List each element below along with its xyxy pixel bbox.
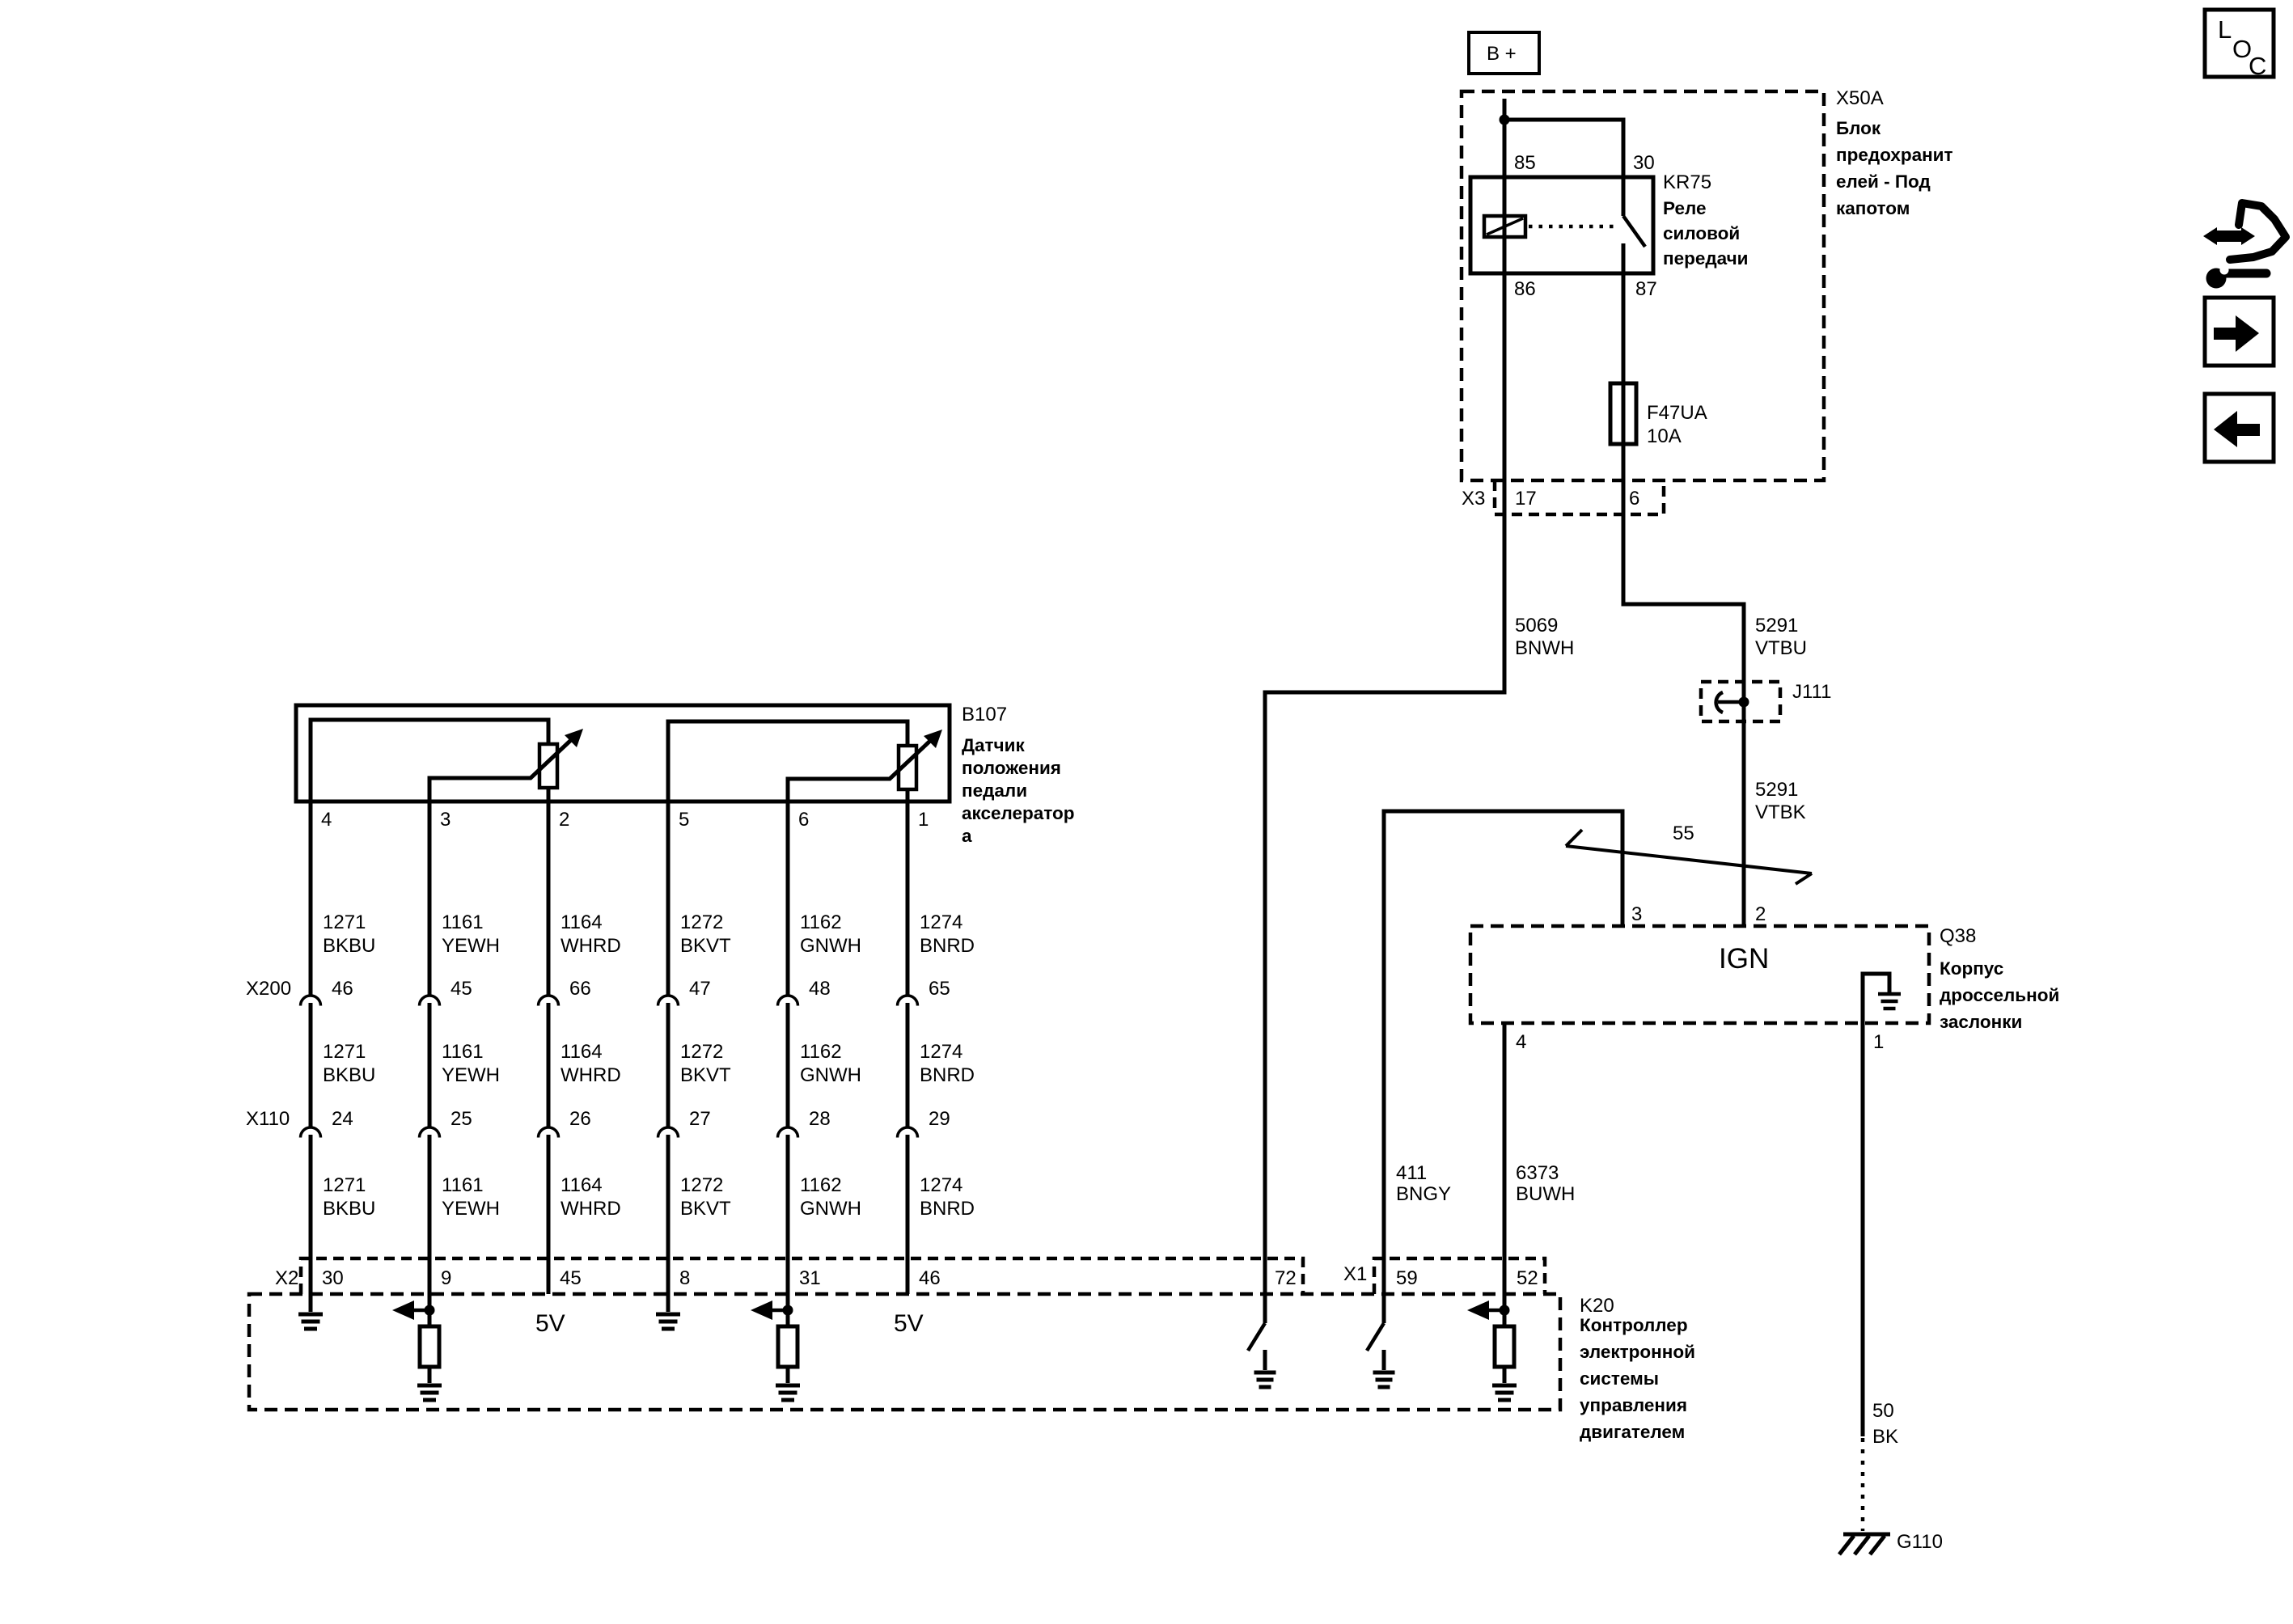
svg-text:BUWH: BUWH — [1516, 1183, 1575, 1205]
svg-text:5291: 5291 — [1755, 615, 1798, 636]
relay switch contact — [1623, 177, 1645, 273]
connector X3 box — [1495, 480, 1664, 514]
potentiometer 2 track feed — [668, 721, 907, 801]
potentiometer 2 output — [906, 789, 910, 801]
wire 1164 WHRD segment 3 — [547, 1135, 551, 1294]
svg-text:передачи: передачи — [1663, 248, 1749, 269]
svg-text:KR75: KR75 — [1663, 171, 1711, 193]
svg-text:25: 25 — [451, 1108, 472, 1130]
svg-text:6: 6 — [798, 809, 809, 831]
svg-text:6: 6 — [1629, 488, 1639, 510]
svg-text:6373: 6373 — [1516, 1162, 1559, 1184]
svg-text:электронной: электронной — [1580, 1342, 1695, 1362]
svg-text:1161: 1161 — [442, 1174, 484, 1196]
wire 1164 WHRD label 1 — [561, 911, 621, 957]
svg-text:66: 66 — [569, 978, 591, 1000]
wire 1271 BKBU segment 2 — [309, 1003, 313, 1127]
svg-text:1271: 1271 — [323, 911, 366, 933]
wire 1271 BKBU label 1 — [323, 911, 375, 957]
svg-text:двигателем: двигателем — [1580, 1422, 1685, 1442]
previous page arrow box — [2205, 394, 2274, 462]
svg-text:1162: 1162 — [800, 911, 842, 933]
relay linkage (dotted) — [1529, 225, 1618, 229]
svg-text:педали: педали — [962, 780, 1027, 801]
wire 1272 BKVT segment 2 — [666, 1003, 671, 1127]
svg-text:86: 86 — [1514, 278, 1536, 300]
svg-text:YEWH: YEWH — [442, 1198, 500, 1220]
svg-text:27: 27 — [689, 1108, 711, 1130]
wire 50 BK label — [1872, 1400, 1898, 1448]
svg-text:4: 4 — [321, 809, 332, 831]
ECM connector X2 box — [301, 1258, 1303, 1294]
svg-text:31: 31 — [799, 1267, 821, 1289]
pin 30 internal ground — [298, 1294, 323, 1329]
svg-text:1274: 1274 — [920, 1174, 962, 1196]
svg-text:1164: 1164 — [561, 1174, 603, 1196]
wire 1272 BKVT segment 1 — [666, 801, 671, 995]
svg-text:1: 1 — [918, 809, 929, 831]
pin 59 switch to ground — [1367, 1323, 1395, 1387]
connector X200 pin 65 — [898, 996, 918, 1006]
svg-text:X1: X1 — [1343, 1263, 1367, 1285]
svg-text:3: 3 — [440, 809, 451, 831]
fuse block X50A label — [1836, 87, 1953, 218]
svg-text:Блок: Блок — [1836, 118, 1881, 138]
svg-text:GNWH: GNWH — [800, 1198, 861, 1220]
wire 1274 BNRD segment 1 — [906, 801, 910, 995]
svg-text:5: 5 — [679, 809, 689, 831]
svg-text:1162: 1162 — [800, 1174, 842, 1196]
LOC index box — [2205, 10, 2274, 80]
svg-text:VTBK: VTBK — [1755, 801, 1806, 823]
svg-text:X110: X110 — [246, 1108, 290, 1130]
svg-text:BKVT: BKVT — [680, 935, 731, 957]
svg-text:50: 50 — [1872, 1400, 1894, 1422]
svg-text:1272: 1272 — [680, 1174, 723, 1196]
wire 1274 BNRD label 2 — [920, 1041, 975, 1086]
svg-text:G110: G110 — [1897, 1531, 1943, 1553]
svg-text:45: 45 — [451, 978, 472, 1000]
connector X110 pin 26 — [539, 1127, 559, 1138]
pin 9 pull-up to 5V — [392, 1300, 442, 1400]
svg-text:YEWH: YEWH — [442, 935, 500, 957]
connector X110 pin 28 — [778, 1127, 798, 1138]
wire 1272 BKVT segment 3 — [666, 1135, 671, 1312]
splice J111 symbol — [1716, 692, 1749, 721]
throttle body Q38 box — [1470, 926, 1929, 1023]
connector X200 pin 48 — [778, 996, 798, 1006]
wire 1272 BKVT label 3 — [680, 1174, 731, 1220]
pin 52 pull-up (IGN sense) — [1467, 1300, 1517, 1400]
wire pin 87 through fuse — [1622, 273, 1626, 514]
wire 1271 BKBU label 3 — [323, 1174, 375, 1220]
svg-text:IGN: IGN — [1719, 943, 1769, 975]
fuse F47UA label — [1647, 402, 1707, 447]
svg-text:26: 26 — [569, 1108, 591, 1130]
svg-text:1162: 1162 — [800, 1041, 842, 1063]
svg-text:акселератор: акселератор — [962, 803, 1074, 823]
ECM connector X1 box — [1374, 1258, 1545, 1294]
svg-text:9: 9 — [441, 1267, 451, 1289]
svg-text:28: 28 — [809, 1108, 831, 1130]
svg-text:Реле: Реле — [1663, 198, 1706, 218]
wire 1271 BKBU segment 3 — [309, 1135, 313, 1312]
wire 1162 GNWH label 3 — [800, 1174, 861, 1220]
wire 1161 YEWH label 3 — [442, 1174, 500, 1220]
svg-text:30: 30 — [322, 1267, 344, 1289]
svg-text:45: 45 — [560, 1267, 582, 1289]
wire 5291 VTBU label — [1755, 615, 1807, 659]
svg-text:BKBU: BKBU — [323, 1064, 375, 1086]
svg-text:24: 24 — [332, 1108, 353, 1130]
wire 1161 YEWH segment 2 — [428, 1003, 432, 1127]
connector X200 pin 46 — [301, 996, 321, 1006]
wire 50 BK — [1861, 1023, 1865, 1436]
wire 6373 BUWH label — [1516, 1162, 1575, 1205]
wire 6373 BUWH — [1503, 1023, 1507, 1326]
svg-text:Q38: Q38 — [1940, 925, 1976, 947]
svg-text:заслонки: заслонки — [1940, 1012, 2022, 1032]
svg-text:системы: системы — [1580, 1368, 1659, 1389]
wire 1164 WHRD segment 1 — [547, 801, 551, 995]
svg-text:1271: 1271 — [323, 1174, 366, 1196]
fuse block X50A box — [1462, 91, 1824, 480]
wire 1272 BKVT label 1 — [680, 911, 731, 957]
wire 5291 VTBU — [1623, 514, 1744, 702]
wire 1162 GNWH label 2 — [800, 1041, 861, 1086]
svg-text:5069: 5069 — [1515, 615, 1558, 636]
wire 1162 GNWH segment 3 — [786, 1135, 790, 1326]
svg-text:55: 55 — [1673, 823, 1694, 844]
svg-text:5V: 5V — [535, 1310, 565, 1337]
connector X110 pin 25 — [420, 1127, 440, 1138]
svg-text:WHRD: WHRD — [561, 1198, 621, 1220]
wire 1161 YEWH label 2 — [442, 1041, 500, 1086]
svg-text:65: 65 — [929, 978, 950, 1000]
Q38 internal ground — [1863, 974, 1901, 1023]
svg-text:VTBU: VTBU — [1755, 637, 1807, 659]
svg-text:17: 17 — [1515, 488, 1537, 510]
potentiometer 2 resistor — [899, 746, 916, 789]
svg-text:елей - Под: елей - Под — [1836, 171, 1931, 192]
wire pin 86 to X3-17 — [1503, 273, 1507, 514]
svg-text:дроссельной: дроссельной — [1940, 985, 2059, 1005]
throttle body Q38 label — [1940, 925, 2059, 1032]
wire B+ feed — [1503, 99, 1507, 177]
svg-text:BKBU: BKBU — [323, 1198, 375, 1220]
svg-text:1272: 1272 — [680, 911, 723, 933]
svg-text:1274: 1274 — [920, 1041, 962, 1063]
wire 50 BK dotted segment — [1861, 1438, 1865, 1531]
svg-text:47: 47 — [689, 978, 711, 1000]
svg-text:BKVT: BKVT — [680, 1198, 731, 1220]
svg-text:K20: K20 — [1580, 1295, 1614, 1317]
svg-text:капотом: капотом — [1836, 198, 1910, 218]
wire 1274 BNRD label 3 — [920, 1174, 975, 1220]
wire 1161 YEWH segment 1 — [428, 801, 432, 995]
potentiometer 1 output — [547, 788, 551, 801]
svg-text:GNWH: GNWH — [800, 935, 861, 957]
battery terminal B+ — [1469, 32, 1539, 74]
ground G110 — [1839, 1534, 1890, 1554]
wire branch to relay pin 30 — [1504, 120, 1623, 177]
svg-text:X2: X2 — [275, 1267, 298, 1289]
wire 1162 GNWH label 1 — [800, 911, 861, 957]
svg-text:5291: 5291 — [1755, 779, 1798, 801]
svg-text:GNWH: GNWH — [800, 1064, 861, 1086]
svg-text:X3: X3 — [1462, 488, 1485, 510]
potentiometer 1 wiper — [429, 729, 583, 801]
pin 8 internal ground — [656, 1294, 680, 1329]
relay KR75 label — [1663, 171, 1749, 269]
svg-text:5V: 5V — [894, 1310, 924, 1337]
svg-text:WHRD: WHRD — [561, 935, 621, 957]
svg-text:BNGY: BNGY — [1396, 1183, 1451, 1205]
svg-text:52: 52 — [1517, 1267, 1538, 1289]
svg-text:BNRD: BNRD — [920, 1064, 975, 1086]
connector X200 pin 47 — [658, 996, 679, 1006]
wire 411 BNGY label — [1396, 1162, 1451, 1205]
potentiometer 2 wiper — [788, 730, 942, 801]
svg-text:8: 8 — [679, 1267, 690, 1289]
svg-text:1161: 1161 — [442, 911, 484, 933]
svg-text:управления: управления — [1580, 1395, 1687, 1415]
wire 1164 WHRD label 3 — [561, 1174, 621, 1220]
svg-text:48: 48 — [809, 978, 831, 1000]
wire 1162 GNWH segment 2 — [786, 1003, 790, 1127]
svg-text:1164: 1164 — [561, 911, 603, 933]
svg-text:Контроллер: Контроллер — [1580, 1315, 1688, 1335]
svg-text:3: 3 — [1631, 903, 1642, 925]
svg-text:положения: положения — [962, 758, 1061, 778]
wire 1164 WHRD segment 2 — [547, 1003, 551, 1127]
junction — [1500, 115, 1510, 125]
svg-text:46: 46 — [919, 1267, 941, 1289]
svg-text:J111: J111 — [1792, 681, 1831, 703]
wire 1164 WHRD label 2 — [561, 1041, 621, 1086]
wire 411 BNGY — [1384, 811, 1622, 1323]
ECM K20 box — [249, 1294, 1560, 1410]
harness crossing note 55 line — [1566, 830, 1812, 884]
wire 5069 BNWH — [1265, 514, 1504, 1323]
potentiometer 1 resistor — [539, 744, 557, 788]
svg-text:10A: 10A — [1647, 425, 1682, 447]
svg-text:59: 59 — [1396, 1267, 1418, 1289]
svg-text:1271: 1271 — [323, 1041, 366, 1063]
svg-text:L: L — [2218, 15, 2232, 44]
svg-text:YEWH: YEWH — [442, 1064, 500, 1086]
connector X110 pin 24 — [301, 1127, 321, 1138]
wire 5291 VTBK label — [1755, 779, 1806, 823]
ECM K20 label — [1580, 1295, 1695, 1442]
svg-text:2: 2 — [1755, 903, 1766, 925]
svg-text:BNWH: BNWH — [1515, 637, 1574, 659]
svg-text:1161: 1161 — [442, 1041, 484, 1063]
wire 1272 BKVT label 2 — [680, 1041, 731, 1086]
svg-text:1272: 1272 — [680, 1041, 723, 1063]
pin 31 pull-up to 5V — [751, 1300, 800, 1400]
connector X110 pin 29 — [898, 1127, 918, 1138]
svg-text:1274: 1274 — [920, 911, 962, 933]
svg-text:BNRD: BNRD — [920, 1198, 975, 1220]
svg-text:а: а — [962, 826, 972, 846]
svg-text:87: 87 — [1635, 278, 1657, 300]
svg-text:1164: 1164 — [561, 1041, 603, 1063]
wire 1271 BKBU label 2 — [323, 1041, 375, 1086]
pedal sensor B107 label — [962, 704, 1074, 846]
svg-text:72: 72 — [1275, 1267, 1297, 1289]
svg-text:BKBU: BKBU — [323, 935, 375, 957]
wire 5291 VTBK — [1742, 721, 1746, 926]
svg-text:BKVT: BKVT — [680, 1064, 731, 1086]
potentiometer 1 track feed — [311, 720, 548, 801]
wire 1274 BNRD label 1 — [920, 911, 975, 957]
svg-text:X50A: X50A — [1836, 87, 1884, 109]
svg-text:4: 4 — [1516, 1031, 1526, 1053]
svg-text:X200: X200 — [246, 978, 291, 1000]
svg-text:85: 85 — [1514, 152, 1536, 174]
svg-text:силовой: силовой — [1663, 223, 1740, 243]
svg-text:B107: B107 — [962, 704, 1007, 725]
next page arrow box — [2205, 298, 2274, 366]
relay KR75 box — [1470, 177, 1653, 273]
svg-text:30: 30 — [1633, 152, 1655, 174]
svg-text:Корпус: Корпус — [1940, 958, 2003, 979]
svg-text:29: 29 — [929, 1108, 950, 1130]
svg-text:F47UA: F47UA — [1647, 402, 1707, 424]
wire 1162 GNWH segment 1 — [786, 801, 790, 995]
wire 1274 BNRD segment 3 — [906, 1135, 910, 1294]
wire 5069 BNWH label — [1515, 615, 1574, 659]
svg-text:BNRD: BNRD — [920, 935, 975, 957]
fuse F47UA — [1610, 383, 1636, 444]
svg-text:Датчик: Датчик — [962, 735, 1025, 755]
svg-text:2: 2 — [559, 809, 569, 831]
svg-text:411: 411 — [1396, 1162, 1427, 1184]
svg-text:1: 1 — [1873, 1031, 1884, 1053]
relay coil — [1484, 177, 1525, 273]
harness routing icon — [2203, 203, 2286, 289]
svg-text:предохранит: предохранит — [1836, 145, 1953, 165]
svg-text:46: 46 — [332, 978, 353, 1000]
svg-text:BK: BK — [1872, 1426, 1898, 1448]
connector X200 pin 66 — [539, 996, 559, 1006]
wire 1161 YEWH segment 3 — [428, 1135, 432, 1326]
wire 1274 BNRD segment 2 — [906, 1003, 910, 1127]
wire 1271 BKBU segment 1 — [309, 801, 313, 995]
svg-text:B +: B + — [1487, 43, 1517, 65]
pedal sensor B107 box — [296, 705, 950, 801]
connector X110 pin 27 — [658, 1127, 679, 1138]
pin 72 switch to ground — [1248, 1323, 1276, 1387]
splice J111 box — [1701, 682, 1780, 721]
wire 1161 YEWH label 1 — [442, 911, 500, 957]
svg-text:C: C — [2249, 52, 2266, 80]
connector X200 pin 45 — [420, 996, 440, 1006]
svg-text:WHRD: WHRD — [561, 1064, 621, 1086]
